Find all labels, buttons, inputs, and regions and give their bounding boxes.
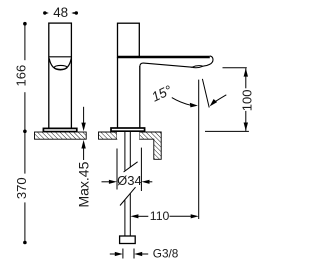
side view base plate [111, 128, 145, 131]
supply pipe [125, 132, 130, 236]
svg-text:166: 166 [14, 65, 29, 87]
15 degree annotation [149, 82, 226, 107]
dimension 110 [130, 80, 198, 223]
pipe break slash lower [120, 187, 136, 205]
svg-text:48: 48 [53, 5, 68, 20]
pipe break slash upper [124, 162, 138, 172]
side countertop hatch [99, 132, 162, 159]
dimension 370 [14, 131, 29, 244]
side view lower column [117, 57, 119, 128]
dimension O34 [102, 148, 153, 191]
G3/8 dimension [110, 247, 179, 261]
dimension 100 [205, 68, 255, 132]
side view body upper block [118, 23, 140, 57]
svg-text:370: 370 [14, 177, 29, 199]
front view spout band line [49, 56, 72, 58]
side view aerator leaf [192, 66, 203, 68]
dimension 48 [43, 5, 78, 20]
dimension 166 [14, 22, 29, 133]
svg-text:G3/8: G3/8 [153, 247, 179, 261]
G3/8 fitting [120, 236, 136, 244]
side view spout tip [203, 56, 213, 66]
Max.45 annotation [76, 107, 92, 208]
front countertop hatch [35, 132, 87, 139]
15 degree angled line [202, 79, 209, 108]
front view outlet ellipse [54, 65, 67, 69]
svg-text:100: 100 [240, 90, 255, 112]
front view body [49, 23, 72, 128]
svg-text:Ø34: Ø34 [117, 173, 142, 188]
front view spout curve [49, 58, 71, 70]
svg-text:Max.45: Max.45 [76, 161, 92, 207]
side view spout blade top line [117, 56, 210, 59]
svg-text:110: 110 [150, 209, 170, 223]
side view spout underside [140, 63, 192, 67]
front view base plate [43, 128, 76, 131]
